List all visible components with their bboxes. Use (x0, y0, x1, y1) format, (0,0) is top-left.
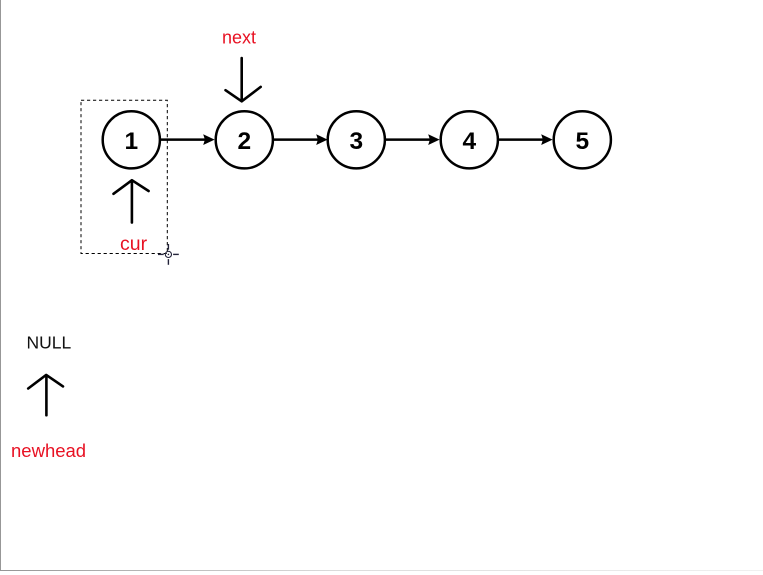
svg-text:NULL: NULL (27, 333, 72, 353)
svg-text:newhead: newhead (11, 440, 86, 461)
svg-text:4: 4 (462, 128, 476, 155)
svg-text:5: 5 (575, 128, 589, 155)
svg-text:1: 1 (124, 128, 138, 155)
svg-text:cur: cur (120, 233, 148, 255)
svg-text:2: 2 (237, 128, 251, 155)
svg-text:next: next (222, 28, 256, 48)
svg-text:3: 3 (349, 128, 363, 155)
